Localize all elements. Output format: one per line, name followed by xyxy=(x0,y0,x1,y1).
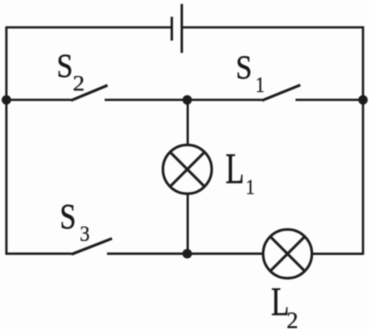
wire left vertical xyxy=(5,26,7,254)
lamp L1 cross stroke 2 xyxy=(170,152,205,187)
svg-text:S: S xyxy=(57,47,73,85)
wire bottom-left lead to S3 xyxy=(6,253,71,255)
node center junction dot xyxy=(182,95,192,105)
wire lamp L2 to right vertical xyxy=(311,253,363,255)
battery B1 long positive plate xyxy=(181,4,183,53)
wire S3 contact to bottom node xyxy=(107,253,188,255)
node left junction dot xyxy=(2,95,12,105)
svg-text:S: S xyxy=(236,48,252,86)
lamp L1 circle xyxy=(163,145,212,194)
wire right vertical xyxy=(362,26,364,254)
wire top-left segment xyxy=(6,26,171,28)
svg-text:L: L xyxy=(225,145,244,194)
node bottom junction dot xyxy=(182,249,192,259)
wire center node down to lamp L1 xyxy=(187,100,189,146)
lamp L2 circle xyxy=(263,229,312,278)
lamp L2 cross stroke 2 xyxy=(270,237,305,271)
wire center node to S1 hinge xyxy=(188,99,262,101)
wire S2 contact to center node xyxy=(105,99,188,101)
switch S1 blade xyxy=(262,85,300,101)
switch S2 blade xyxy=(71,85,108,100)
wire bottom node to lamp L2 xyxy=(188,253,264,255)
switch S3 blade xyxy=(72,239,113,255)
lamp L1 cross stroke 1 xyxy=(170,152,205,187)
wire S1 contact to right node xyxy=(296,99,364,101)
svg-text:S: S xyxy=(60,198,76,237)
svg-text:1: 1 xyxy=(246,176,255,200)
battery B1 short negative plate xyxy=(171,17,173,41)
svg-text:1: 1 xyxy=(255,74,264,98)
svg-text:2: 2 xyxy=(73,71,85,96)
wire middle left lead to S2 xyxy=(6,99,71,101)
svg-text:3: 3 xyxy=(80,221,90,246)
wire lamp L1 to bottom node xyxy=(187,193,189,254)
lamp L2 cross stroke 1 xyxy=(270,237,305,271)
svg-text:2: 2 xyxy=(286,308,298,329)
node right junction dot xyxy=(358,95,368,105)
wire top-right segment xyxy=(182,26,364,28)
